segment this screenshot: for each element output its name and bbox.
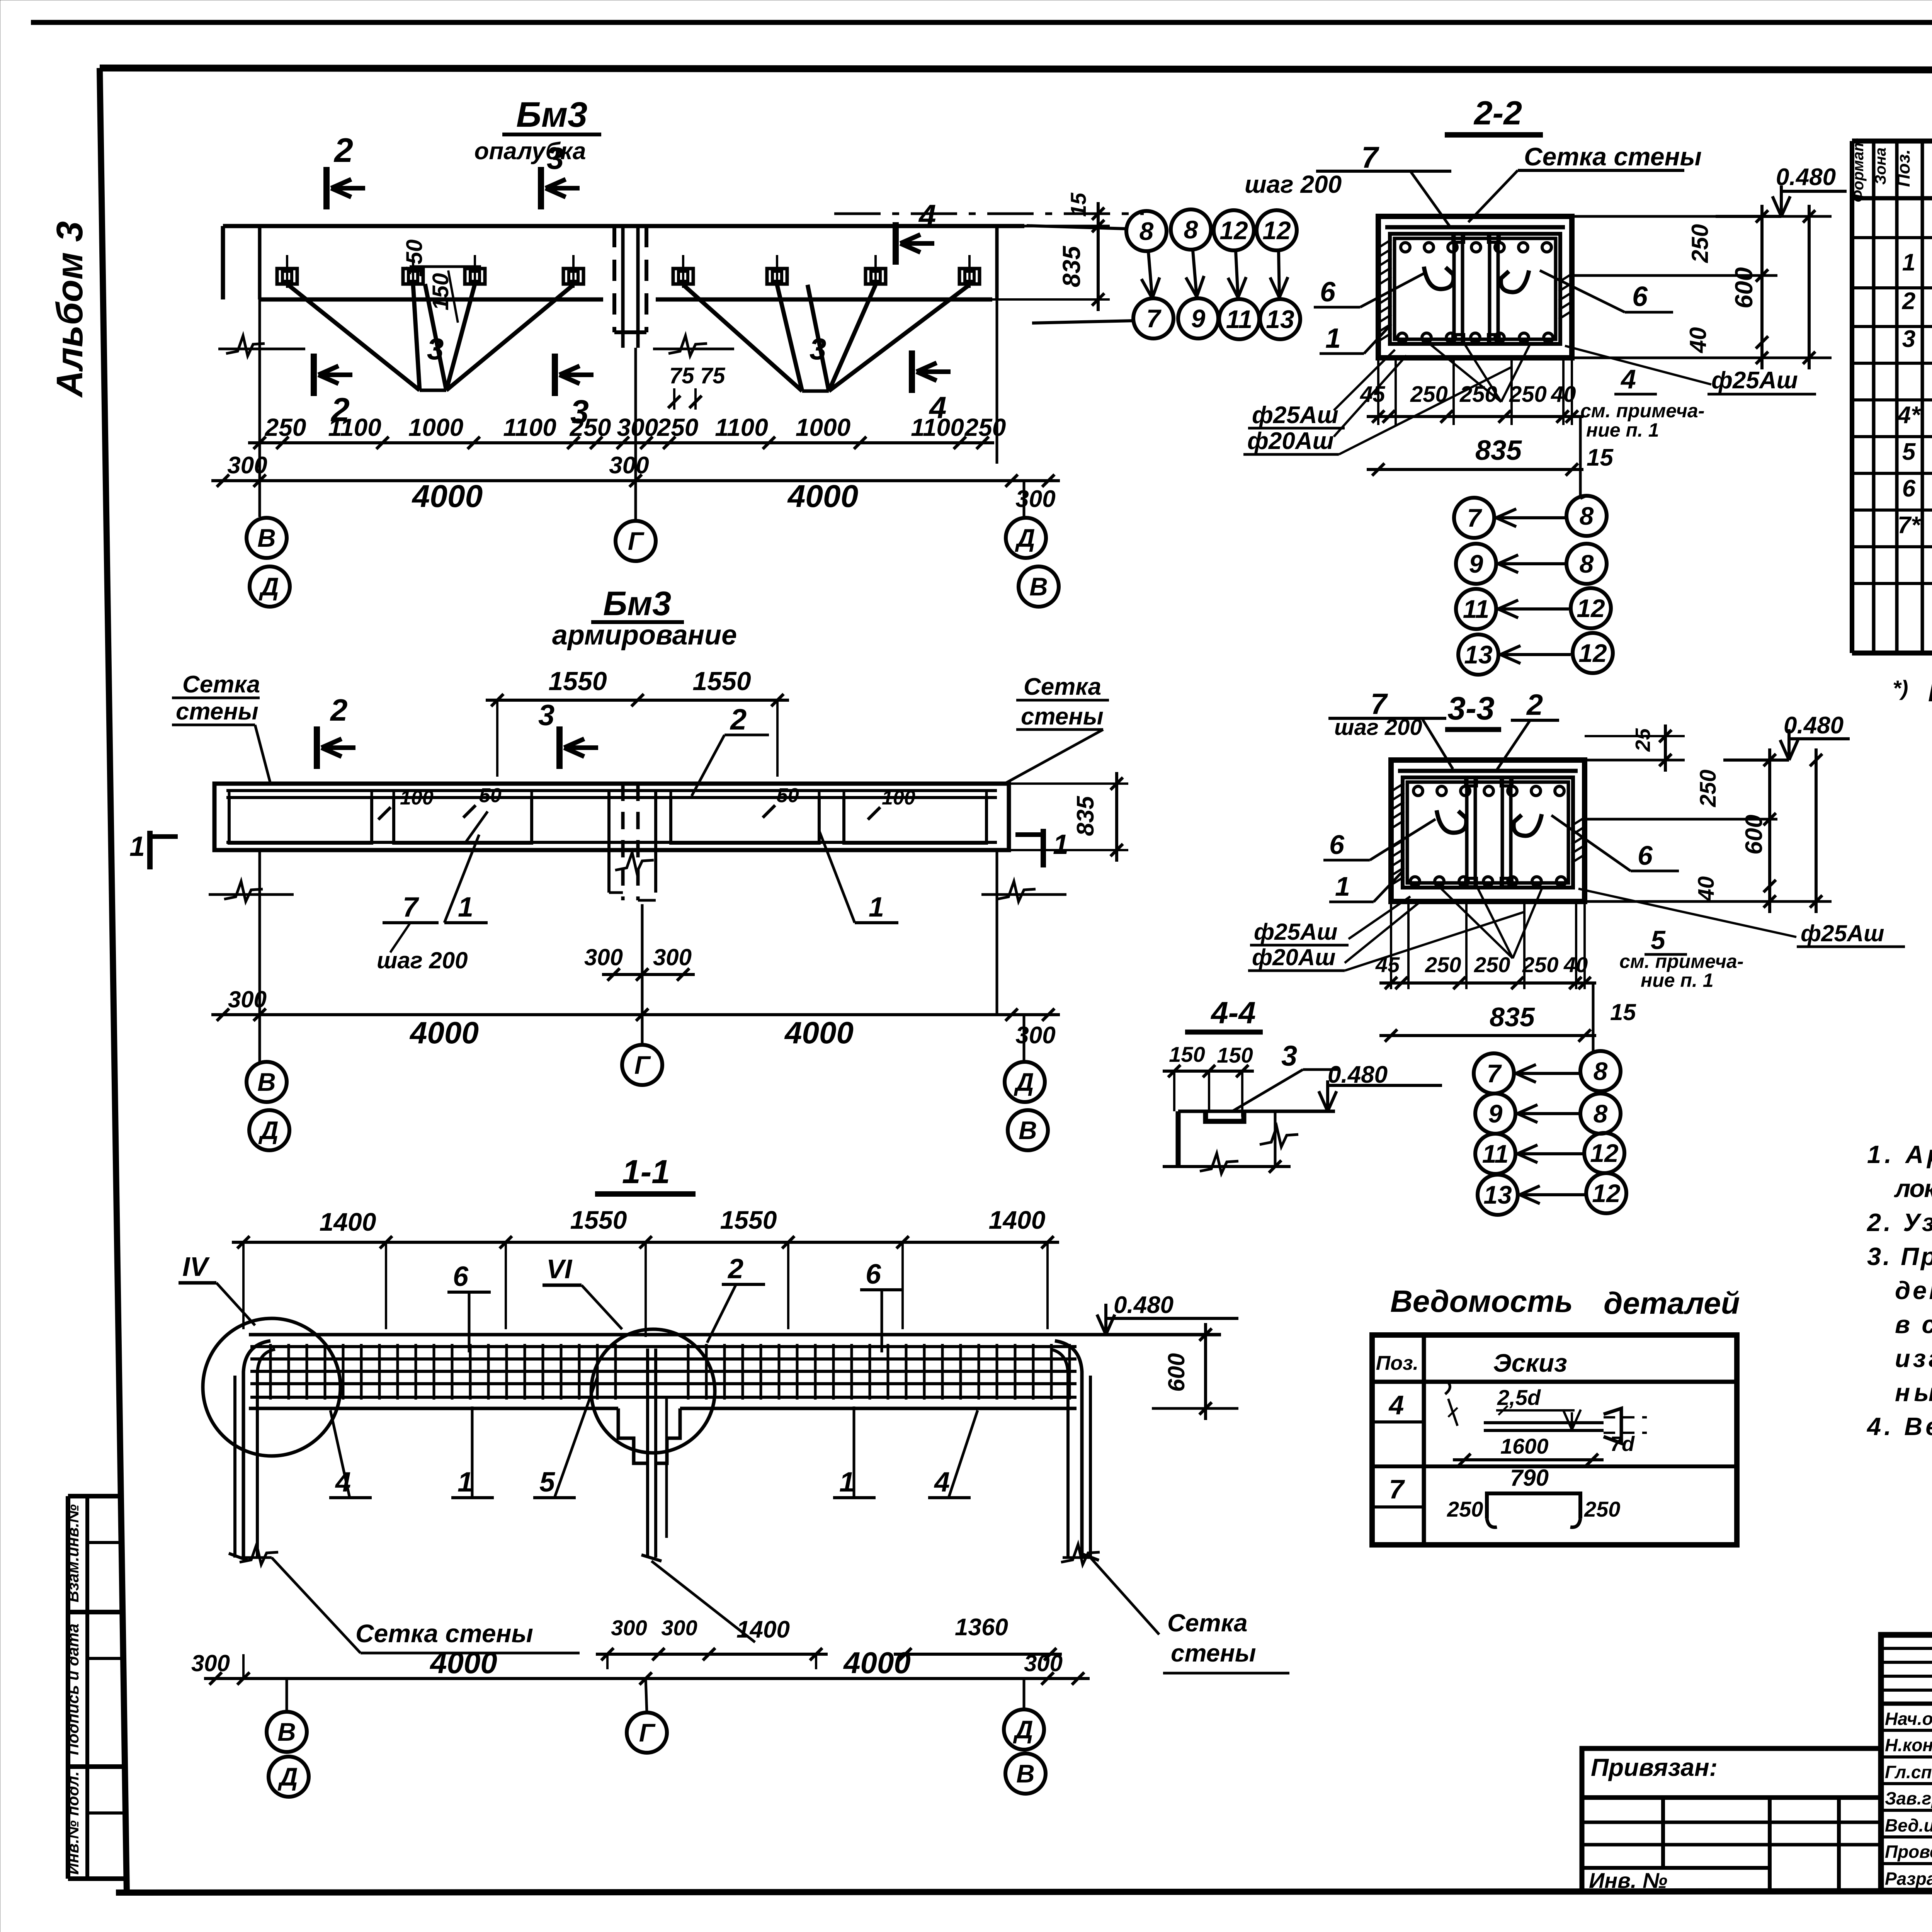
svg-text:см. примеча-: см. примеча- xyxy=(1619,951,1743,972)
right dims sec3 xyxy=(1585,759,1685,762)
left column strip xyxy=(66,1496,70,1879)
svg-text:7: 7 xyxy=(1361,140,1379,174)
svg-text:1550: 1550 xyxy=(570,1206,627,1234)
svg-text:250: 250 xyxy=(964,413,1006,441)
beam 1-1 top line xyxy=(249,1333,1221,1337)
svg-text:250: 250 xyxy=(1584,1497,1620,1521)
plate axis ticks xyxy=(286,255,288,288)
axis circle B right plan xyxy=(1019,566,1059,607)
svg-text:2: 2 xyxy=(730,703,747,736)
svg-text:40: 40 xyxy=(1694,876,1719,902)
bottom rebar dots xyxy=(1410,877,1420,886)
hook right pos6 xyxy=(1501,270,1529,292)
svg-text:4000: 4000 xyxy=(787,479,858,514)
level line sec3 xyxy=(1723,759,1789,762)
section marker 4 top right xyxy=(893,222,899,265)
svg-text:600: 600 xyxy=(1741,815,1767,854)
circle 13 xyxy=(1260,299,1300,339)
svg-text:Разраб.: Разраб. xyxy=(1885,1869,1932,1889)
svg-text:9: 9 xyxy=(1191,304,1206,333)
axis extensions 1-1 bottom xyxy=(242,1654,245,1679)
svg-text:Д: Д xyxy=(259,572,279,601)
dim row 2 plan 4000 xyxy=(211,479,1060,482)
leader lines bottom sec3 xyxy=(1441,889,1513,958)
chain 3-3 row3 xyxy=(1475,1134,1515,1174)
stirrup cage xyxy=(1390,234,1560,344)
section marker 2 arm xyxy=(314,726,320,769)
leader lines bottom bars sec2 xyxy=(1430,344,1501,402)
callout V lines right xyxy=(683,285,802,391)
svg-text:4: 4 xyxy=(934,1467,950,1498)
svg-text:7d: 7d xyxy=(1610,1432,1635,1456)
svg-text:300: 300 xyxy=(1015,1022,1055,1049)
wall bars left xyxy=(233,1376,236,1558)
svg-text:В: В xyxy=(1019,1116,1037,1145)
svg-text:2: 2 xyxy=(727,1253,743,1284)
svg-text:2: 2 xyxy=(333,131,353,169)
svg-text:2: 2 xyxy=(1526,689,1543,721)
svg-text:2,5d: 2,5d xyxy=(1497,1385,1541,1410)
dim row sec2 45-250-250-250-40 xyxy=(1367,415,1583,418)
svg-text:1: 1 xyxy=(458,892,473,923)
corner bend right xyxy=(1055,1341,1082,1557)
svg-text:300: 300 xyxy=(653,944,692,970)
uzel IV circle xyxy=(203,1318,340,1456)
svg-text:Бм3: Бм3 xyxy=(603,584,671,622)
svg-text:250: 250 xyxy=(1459,382,1497,407)
svg-text:1550: 1550 xyxy=(692,667,751,696)
svg-text:локой к пространственному к: локой к пространственному каркасу КП3. xyxy=(1894,1174,1932,1202)
svg-text:9: 9 xyxy=(1488,1099,1503,1128)
section marker 3 top xyxy=(538,167,544,209)
svg-text:150: 150 xyxy=(402,240,427,277)
arrow 8a-7 xyxy=(1148,252,1152,298)
dim 835 sec2 xyxy=(1367,468,1583,471)
svg-text:Н.контр.: Н.контр. xyxy=(1885,1735,1932,1755)
axis circle G plan xyxy=(616,521,656,561)
axis circle B right arm xyxy=(1008,1110,1048,1150)
svg-text:3: 3 xyxy=(538,699,554,732)
svg-text:11: 11 xyxy=(1482,1139,1509,1168)
svg-text:шаг 200: шаг 200 xyxy=(1245,170,1342,198)
bottom extension lines sec2 xyxy=(1377,358,1379,425)
svg-text:25: 25 xyxy=(1631,728,1655,752)
svg-text:Г: Г xyxy=(639,1718,656,1747)
svg-text:4000: 4000 xyxy=(409,1015,479,1050)
svg-text:Зав.гр.: Зав.гр. xyxy=(1885,1788,1932,1808)
svg-text:опалубка: опалубка xyxy=(474,138,586,165)
svg-text:835: 835 xyxy=(1490,1002,1535,1032)
break squiggle center xyxy=(668,336,707,356)
svg-text:1: 1 xyxy=(1902,249,1915,276)
hatch right edge xyxy=(1559,274,1571,282)
svg-text:250: 250 xyxy=(570,413,611,441)
axis circle D left plan xyxy=(250,566,290,607)
svg-text:В: В xyxy=(1029,572,1048,601)
center drop bars xyxy=(646,1349,649,1558)
axis extension lines xyxy=(259,299,261,517)
svg-text:250: 250 xyxy=(1509,382,1547,407)
svg-text:50: 50 xyxy=(777,784,799,807)
svg-text:В: В xyxy=(277,1718,296,1746)
break squiggle left xyxy=(226,336,265,356)
svg-text:75: 75 xyxy=(669,363,694,388)
svg-text:6: 6 xyxy=(1320,277,1336,308)
svg-text:15: 15 xyxy=(1066,192,1090,217)
bottom rebar dots xyxy=(1398,333,1407,342)
formwork plan outline xyxy=(223,224,1024,228)
corner bend left xyxy=(243,1341,270,1557)
chain 3-3 row1 xyxy=(1474,1053,1514,1094)
svg-text:250: 250 xyxy=(1687,224,1713,263)
chain 2-2 row3 xyxy=(1456,589,1496,629)
break marks arm xyxy=(224,881,263,901)
svg-text:300: 300 xyxy=(1024,1650,1063,1676)
svg-text:Зона: Зона xyxy=(1872,148,1889,185)
top slab line xyxy=(1385,225,1565,230)
privyazan box xyxy=(1582,1748,1881,1893)
svg-text:1400: 1400 xyxy=(320,1207,376,1236)
svg-text:1400: 1400 xyxy=(989,1206,1046,1234)
svg-text:1100: 1100 xyxy=(503,413,556,441)
circle 8a xyxy=(1126,211,1167,251)
svg-text:1: 1 xyxy=(1053,829,1068,860)
circle 12b xyxy=(1257,210,1297,250)
svg-text:Поз.: Поз. xyxy=(1376,1352,1418,1374)
svg-text:5: 5 xyxy=(1902,439,1916,465)
svg-text:12: 12 xyxy=(1590,1139,1619,1167)
svg-text:ф25Аш: ф25Аш xyxy=(1254,919,1338,945)
svg-text:Д: Д xyxy=(1015,524,1035,552)
svg-text:В: В xyxy=(1016,1759,1035,1788)
axis circle D right arm xyxy=(1005,1062,1045,1102)
dim 835 sec3 xyxy=(1379,1034,1596,1037)
svg-text:3: 3 xyxy=(547,141,564,175)
svg-text:300: 300 xyxy=(227,452,267,479)
svg-text:100: 100 xyxy=(882,787,915,809)
svg-text:8: 8 xyxy=(1580,502,1594,530)
svg-text:3: 3 xyxy=(427,332,444,366)
svg-text:7: 7 xyxy=(1487,1059,1502,1088)
svg-text:Г: Г xyxy=(628,527,645,555)
svg-text:250: 250 xyxy=(657,413,699,441)
arm cage top chords xyxy=(226,789,997,792)
svg-text:250: 250 xyxy=(265,413,306,441)
svg-text:1100: 1100 xyxy=(911,413,964,441)
svg-text:300: 300 xyxy=(1015,486,1055,512)
axis extensions arm xyxy=(259,850,261,1062)
svg-text:Инв.№ подл.: Инв.№ подл. xyxy=(64,1771,82,1874)
svg-text:300: 300 xyxy=(609,452,649,479)
setka steny center leader xyxy=(651,1561,755,1642)
svg-text:1400: 1400 xyxy=(736,1616,790,1643)
chain 2-2 row4 xyxy=(1458,634,1498,675)
svg-text:В: В xyxy=(257,1068,276,1096)
svg-text:4000: 4000 xyxy=(412,479,483,514)
svg-text:ных головок шайбами 45х45х1: ных головок шайбами 45х45х10. xyxy=(1895,1378,1932,1406)
section marker 3 bottom xyxy=(552,354,558,396)
axis circle B left arm xyxy=(247,1062,287,1102)
svg-text:5: 5 xyxy=(539,1467,555,1498)
axis circle G arm xyxy=(622,1045,662,1085)
svg-text:Д: Д xyxy=(1013,1715,1033,1744)
svg-text:3: 3 xyxy=(810,332,826,366)
svg-text:150: 150 xyxy=(1169,1042,1205,1066)
svg-text:600: 600 xyxy=(1730,267,1758,309)
svg-text:100: 100 xyxy=(400,787,434,809)
chain link line bottom xyxy=(1032,321,1133,323)
axis circle G 1-1 xyxy=(627,1713,667,1753)
vedomost table frame xyxy=(1372,1335,1737,1545)
svg-text:3-3: 3-3 xyxy=(1447,690,1494,726)
hook left pos6 xyxy=(1437,810,1466,833)
svg-text:ф20Аш: ф20Аш xyxy=(1252,944,1336,970)
center concrete step xyxy=(618,1408,648,1463)
svg-text:1: 1 xyxy=(457,1467,473,1498)
svg-text:300: 300 xyxy=(228,986,267,1012)
svg-text:4: 4 xyxy=(1388,1390,1404,1420)
right dims sec2 xyxy=(1572,215,1832,218)
wall bars right xyxy=(1089,1376,1092,1558)
stirrup cage xyxy=(1403,777,1573,888)
svg-text:8: 8 xyxy=(1139,217,1154,245)
section marker 1 left arm xyxy=(147,831,153,869)
svg-text:1-1: 1-1 xyxy=(622,1153,670,1190)
svg-text:15: 15 xyxy=(1610,999,1636,1025)
svg-text:4-4: 4-4 xyxy=(1210,995,1256,1030)
svg-text:12: 12 xyxy=(1577,594,1605,622)
circle 8b xyxy=(1171,209,1211,250)
svg-text:7: 7 xyxy=(1467,503,1483,532)
chain 2-2 row1 xyxy=(1454,498,1494,538)
svg-text:2-2: 2-2 xyxy=(1473,95,1522,132)
svg-text:7: 7 xyxy=(1389,1474,1405,1504)
svg-text:3. При устройстве высаженных: 3. При устройстве высаженных головок в xyxy=(1867,1242,1932,1270)
chain 3-3 row2 xyxy=(1475,1094,1515,1134)
arm center recess dashed xyxy=(623,784,638,900)
svg-text:3: 3 xyxy=(1281,1040,1297,1072)
svg-text:50: 50 xyxy=(479,784,502,807)
stirrups 1-1 xyxy=(269,1344,272,1400)
svg-text:Сетка: Сетка xyxy=(1024,673,1101,700)
section marker 4 bottom xyxy=(909,350,915,393)
svg-text:13: 13 xyxy=(1483,1180,1512,1209)
svg-text:6: 6 xyxy=(866,1259,881,1290)
svg-text:Д: Д xyxy=(258,1116,279,1145)
svg-text:250: 250 xyxy=(1447,1497,1483,1521)
section marker 3 arm xyxy=(556,726,563,769)
svg-text:стены: стены xyxy=(176,698,259,725)
svg-text:*): *) xyxy=(1893,676,1908,700)
arm cage bottom chord xyxy=(226,841,997,844)
svg-text:Сетка: Сетка xyxy=(182,671,260,698)
svg-text:2: 2 xyxy=(1902,288,1915,315)
central recess dashed xyxy=(614,226,646,332)
svg-text:40: 40 xyxy=(1563,952,1588,977)
svg-text:ние п. 1: ние п. 1 xyxy=(1586,419,1659,441)
svg-text:Инв. №: Инв. № xyxy=(1589,1868,1667,1893)
title block frame xyxy=(1881,1635,1932,1891)
svg-text:1: 1 xyxy=(129,831,145,862)
callout V lines left xyxy=(287,284,420,390)
dim row 1 plan xyxy=(248,441,994,444)
svg-text:0.480: 0.480 xyxy=(1776,164,1836,190)
svg-text:1: 1 xyxy=(1325,323,1341,354)
svg-text:8: 8 xyxy=(1184,215,1198,244)
circle 11 xyxy=(1219,299,1259,339)
svg-text:ф25Аш: ф25Аш xyxy=(1252,402,1338,429)
people rows xyxy=(1881,1729,1932,1732)
svg-text:4000: 4000 xyxy=(429,1646,497,1680)
svg-text:15: 15 xyxy=(1587,444,1614,471)
svg-text:2: 2 xyxy=(330,693,348,727)
beam 1-1 bottom line xyxy=(249,1407,618,1410)
svg-text:250: 250 xyxy=(1474,952,1510,977)
chain link line top xyxy=(1027,226,1127,229)
sec4 profile xyxy=(1178,1110,1335,1113)
svg-text:Г: Г xyxy=(634,1051,651,1079)
svg-text:7*: 7* xyxy=(1898,512,1921,539)
svg-text:1360: 1360 xyxy=(955,1614,1008,1641)
beam 1-1 cage xyxy=(250,1345,1077,1348)
level line sec2 xyxy=(1716,215,1781,218)
circle 7 xyxy=(1133,298,1173,338)
svg-text:45: 45 xyxy=(1360,382,1385,407)
chain 3-3 row4 xyxy=(1478,1175,1518,1215)
dim 4000 line arm xyxy=(211,1013,1060,1016)
circle 9 xyxy=(1178,298,1218,338)
svg-text:835: 835 xyxy=(1475,435,1522,466)
bar spacer squares xyxy=(1453,234,1464,242)
svg-text:Поз.: Поз. xyxy=(1893,149,1913,187)
svg-text:1100: 1100 xyxy=(328,413,381,441)
svg-text:Д: Д xyxy=(1014,1068,1034,1096)
arm beam outline xyxy=(214,784,1009,850)
hook left pos6 xyxy=(1424,267,1454,289)
svg-text:1: 1 xyxy=(1335,871,1350,901)
svg-text:Подпись и дата: Подпись и дата xyxy=(64,1624,82,1755)
svg-text:6: 6 xyxy=(1329,830,1345,860)
axis circle B right 1-1 xyxy=(1005,1753,1046,1794)
top rebar dots xyxy=(1401,243,1410,252)
svg-text:4*: 4* xyxy=(1897,402,1921,429)
svg-text:шаг 200: шаг 200 xyxy=(1334,715,1422,740)
svg-text:13: 13 xyxy=(1266,305,1294,333)
svg-text:7: 7 xyxy=(403,892,419,923)
svg-text:8: 8 xyxy=(1594,1057,1608,1085)
svg-text:2. Узел IV смотрите на листе: 2. Узел IV смотрите на листе 33; узел VI… xyxy=(1866,1208,1932,1236)
svg-text:1. Арматуру поз. 4 и 5 привя: 1. Арматуру поз. 4 и 5 привязать вязальн… xyxy=(1867,1140,1932,1168)
svg-text:деталях поз. 4 длина загото: деталях поз. 4 длина заготовки назначает… xyxy=(1895,1276,1932,1304)
hatch left edge xyxy=(1392,783,1404,791)
svg-text:835: 835 xyxy=(1058,245,1085,287)
svg-text:75: 75 xyxy=(700,363,725,388)
svg-text:4000: 4000 xyxy=(784,1015,854,1050)
section marker 2 top xyxy=(323,167,330,209)
svg-text:Сетка: Сетка xyxy=(1167,1609,1248,1637)
svg-text:600: 600 xyxy=(1163,1353,1189,1392)
arrow 12b-13 xyxy=(1279,251,1279,298)
svg-text:0.480: 0.480 xyxy=(1114,1292,1173,1318)
svg-text:IV: IV xyxy=(182,1252,210,1282)
svg-text:1: 1 xyxy=(839,1467,855,1498)
svg-text:12: 12 xyxy=(1578,639,1607,667)
svg-text:VI: VI xyxy=(546,1254,573,1284)
svg-text:деталей: деталей xyxy=(1604,1286,1740,1320)
svg-text:12: 12 xyxy=(1592,1179,1621,1207)
spec table grid xyxy=(1850,141,1854,653)
arrow 8b-9 xyxy=(1193,250,1197,297)
svg-text:790: 790 xyxy=(1510,1465,1549,1491)
axis circle B left 1-1 xyxy=(267,1712,307,1752)
axis circle D left 1-1 xyxy=(269,1757,309,1797)
inner vertical bars xyxy=(1465,779,1469,887)
arm cage panels xyxy=(229,798,372,843)
svg-text:Провер.: Провер. xyxy=(1885,1842,1932,1862)
svg-text:300: 300 xyxy=(611,1616,647,1640)
hatch left edge xyxy=(1379,240,1391,247)
svg-text:7: 7 xyxy=(1146,304,1162,333)
svg-text:3: 3 xyxy=(1902,326,1915,352)
svg-text:1100: 1100 xyxy=(715,413,768,441)
svg-text:в соответствии с принятой т: в соответствии с принятой технологией xyxy=(1895,1310,1932,1338)
svg-text:0.480: 0.480 xyxy=(1784,712,1844,739)
svg-text:1600: 1600 xyxy=(1500,1434,1549,1458)
svg-text:Гл.спец: Гл.спец xyxy=(1885,1762,1932,1782)
svg-text:300: 300 xyxy=(661,1616,697,1640)
svg-text:1000: 1000 xyxy=(408,413,463,441)
svg-text:250: 250 xyxy=(1522,952,1558,977)
title block top small rows xyxy=(1881,1647,1932,1650)
arrow 12a-11 xyxy=(1236,251,1238,298)
svg-text:4: 4 xyxy=(1620,364,1636,394)
sheet top cut line xyxy=(31,20,1932,25)
svg-text:Ведомость: Ведомость xyxy=(1390,1284,1573,1318)
axis circle D right 1-1 xyxy=(1004,1709,1044,1750)
bottom extension lines sec3 xyxy=(1390,901,1392,989)
svg-text:Сетка стены: Сетка стены xyxy=(1524,142,1702,171)
svg-text:6: 6 xyxy=(1902,475,1916,502)
chain 2-2 row2 xyxy=(1456,544,1496,584)
svg-text:ф20Аш: ф20Аш xyxy=(1247,428,1334,454)
svg-text:изготовления. Допускается за: изготовления. Допускается замена высажен… xyxy=(1895,1344,1932,1372)
svg-text:11: 11 xyxy=(1463,595,1490,623)
inner vertical bars xyxy=(1452,236,1456,343)
link line 15 to chain sec3 xyxy=(1593,1051,1600,1053)
svg-text:8: 8 xyxy=(1594,1099,1608,1128)
axis circle B left plan xyxy=(247,518,287,558)
svg-text:4. Ведомость расхода стали: 4. Ведомость расхода стали см. на листе … xyxy=(1866,1412,1932,1440)
svg-text:11: 11 xyxy=(1226,305,1253,333)
svg-text:Сетка стены: Сетка стены xyxy=(355,1619,533,1648)
svg-text:Д: Д xyxy=(277,1762,298,1791)
svg-text:9: 9 xyxy=(1469,549,1483,578)
svg-text:6: 6 xyxy=(1632,281,1648,312)
svg-text:835: 835 xyxy=(1072,796,1099,836)
svg-text:см. примеча-: см. примеча- xyxy=(1580,400,1704,422)
svg-text:ф25Аш: ф25Аш xyxy=(1801,920,1884,946)
svg-text:8: 8 xyxy=(1580,549,1594,578)
svg-text:1550: 1550 xyxy=(720,1206,777,1234)
svg-text:Взам.инв.№: Взам.инв.№ xyxy=(64,1504,82,1602)
drawing frame border xyxy=(100,68,1932,71)
svg-text:1550: 1550 xyxy=(548,667,607,696)
svg-text:Альбом 3: Альбом 3 xyxy=(49,221,90,398)
svg-text:12: 12 xyxy=(1219,216,1248,245)
wall axis dashdot right xyxy=(834,213,1144,215)
svg-text:300: 300 xyxy=(584,944,623,970)
section marker 2 bottom xyxy=(311,354,317,396)
